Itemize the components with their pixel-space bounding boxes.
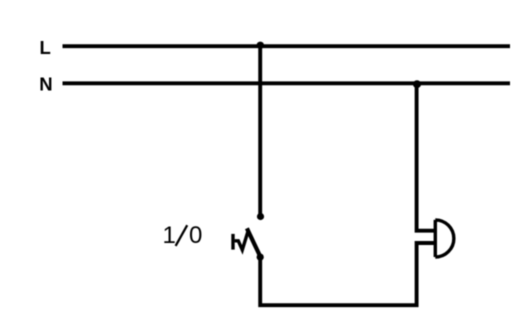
svg-text:N: N [39,73,52,94]
svg-text:1: 1 [163,222,176,249]
svg-text:L: L [40,37,51,58]
svg-text:0: 0 [189,222,202,249]
